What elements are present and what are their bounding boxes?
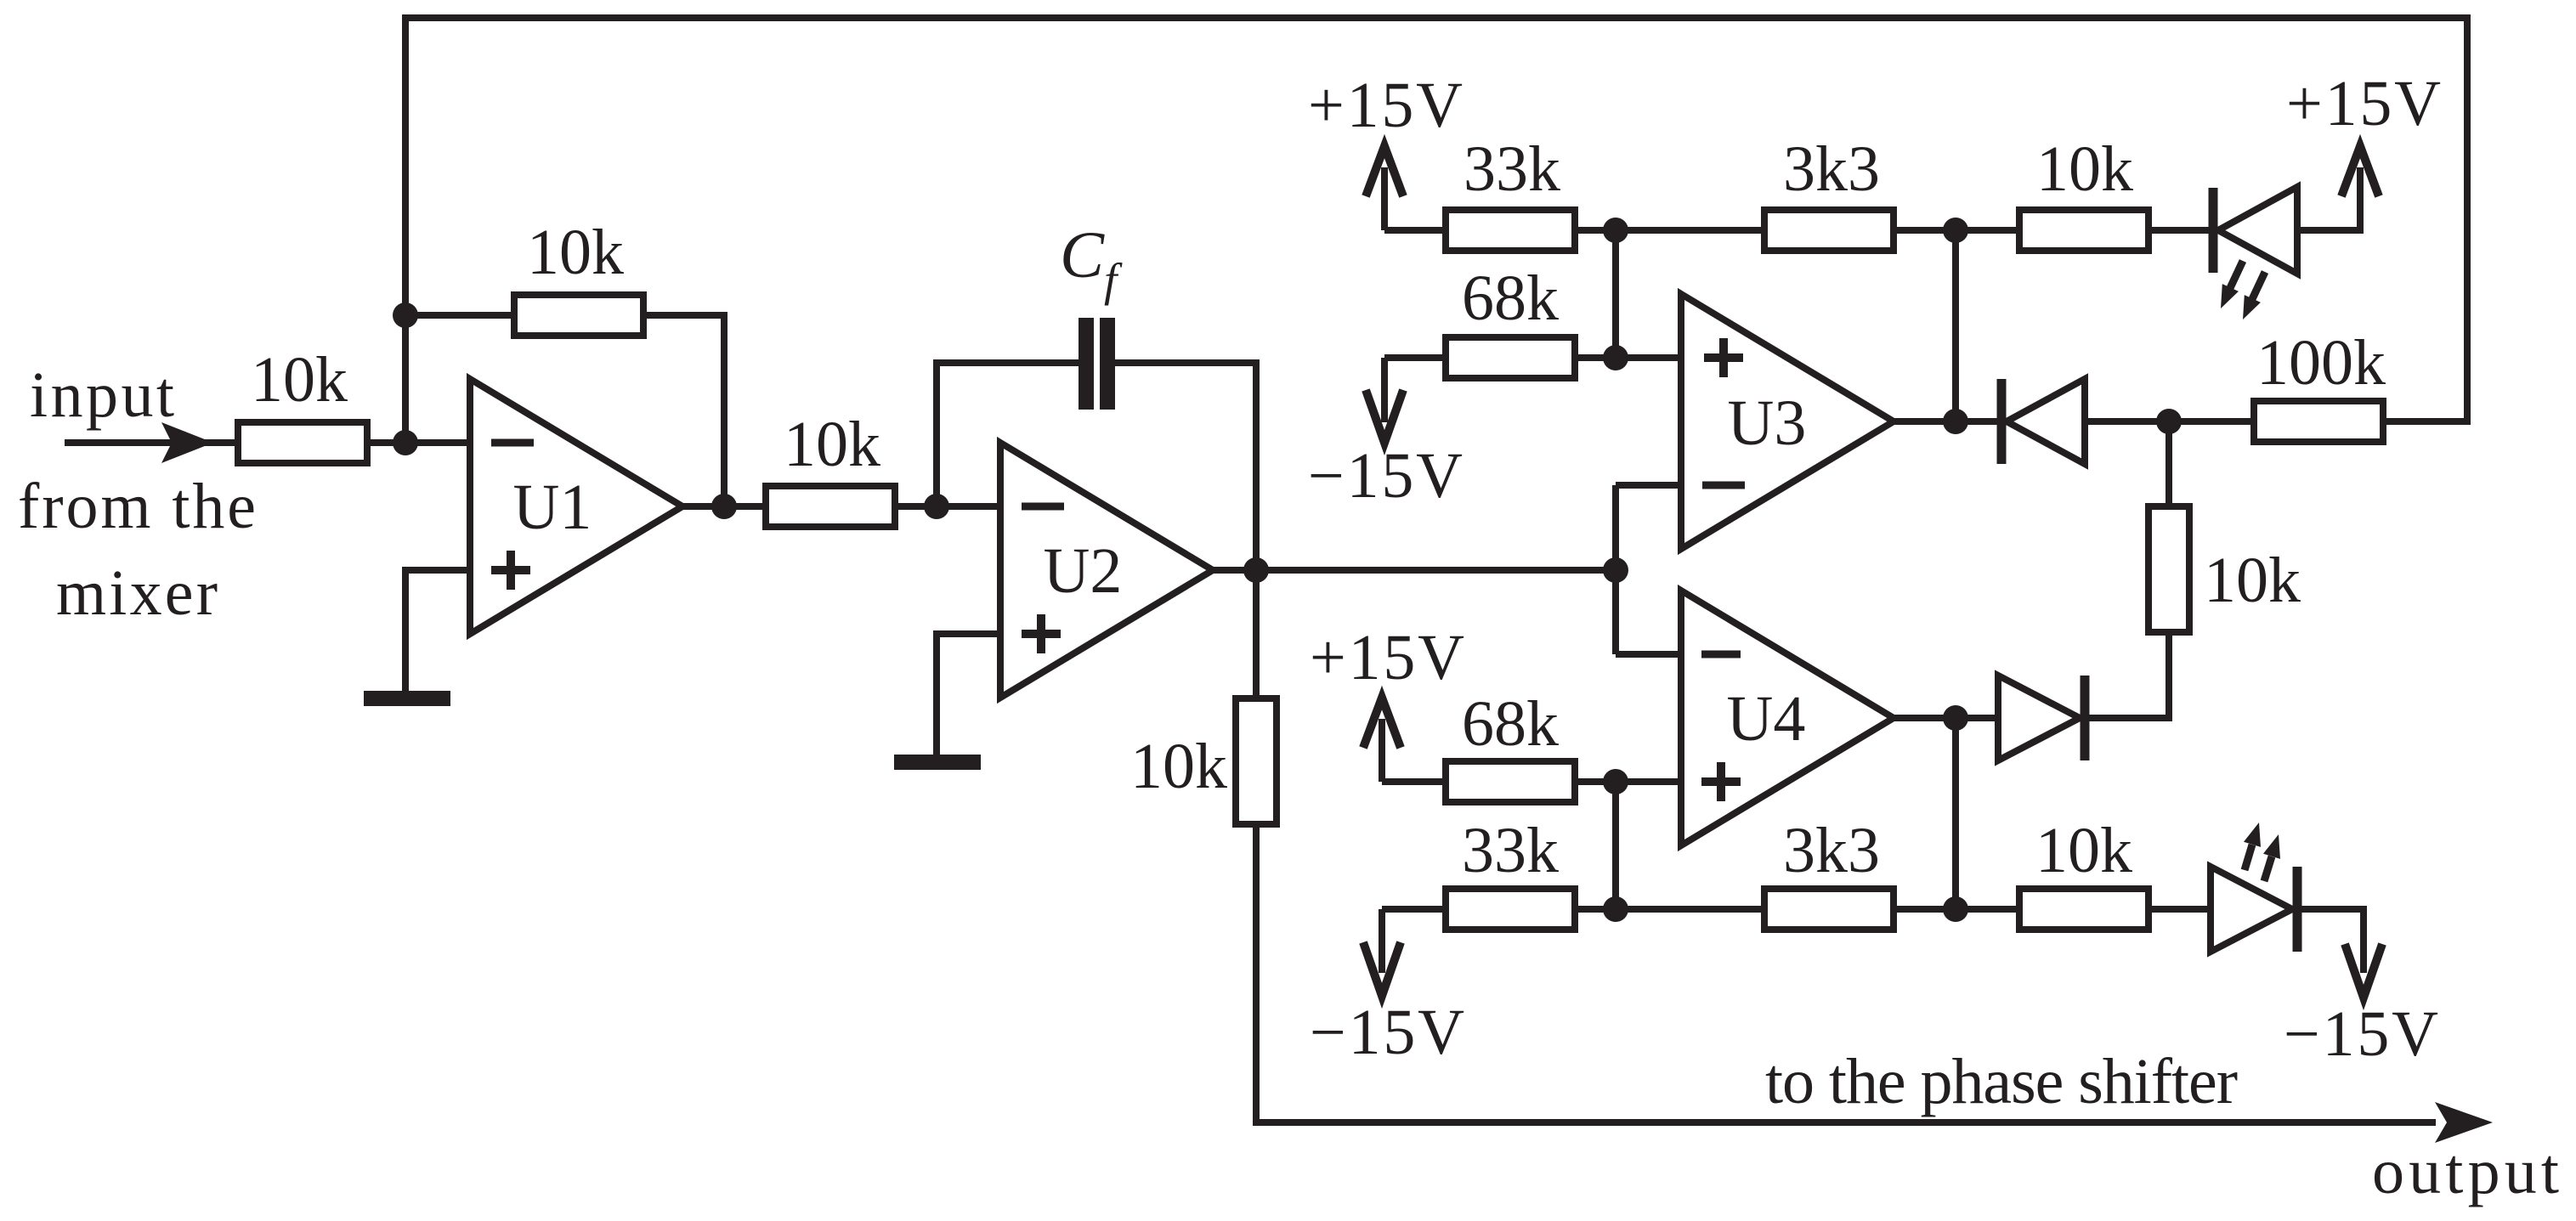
emission arrows LED1 <box>2221 261 2265 319</box>
node diode 100k junction <box>2156 409 2182 434</box>
node U3 output junction <box>1943 409 1968 434</box>
wire 10k to LED2 <box>2149 906 2211 913</box>
emission arrows LED2 <box>2244 822 2280 881</box>
node U3 plus junction <box>1603 345 1628 370</box>
svg-text:−15V: −15V <box>1308 440 1463 512</box>
+15V supply arrow for 68k U4 <box>1363 698 1401 782</box>
svg-text:output: output <box>2372 1136 2559 1207</box>
wire U2 output down to vertical resistor <box>1253 570 1260 698</box>
wire 33k U4 row left <box>1382 906 1442 913</box>
node U4 output junction <box>1943 705 1968 731</box>
wire tee vertical to U3 and U4 inverting inputs <box>1616 485 1681 654</box>
wire top feedback loop <box>405 18 2467 443</box>
svg-text:10k: 10k <box>1130 731 1227 802</box>
svg-text:U3: U3 <box>1728 387 1807 459</box>
svg-text:68k: 68k <box>1462 263 1559 334</box>
resistor 10k vertical mid <box>1236 698 1277 824</box>
node comparator tee junction <box>1603 557 1628 583</box>
wire U2 output row <box>1213 567 1616 574</box>
svg-text:U4: U4 <box>1727 683 1806 755</box>
op-amp U2 <box>1000 443 1213 698</box>
wire U4 output junction down to 3k3 row <box>1952 718 1959 909</box>
wire feedback right segment down to U1 output <box>643 315 724 506</box>
wire U4 plus junction down to 33k row <box>1612 782 1619 909</box>
svg-text:33k: 33k <box>1464 133 1560 205</box>
+15V supply arrow for 33k U3 <box>1366 146 1403 230</box>
svg-text:Cf: Cf <box>1060 218 1123 306</box>
-15V supply arrow for 68k U3 <box>1366 358 1403 443</box>
ground U2 <box>894 755 981 770</box>
wire 33k junction down to U3 plus node <box>1612 230 1619 358</box>
svg-text:U1: U1 <box>513 472 592 543</box>
wire LED2 to -15V <box>2297 909 2364 973</box>
resistor 33k U3 <box>1446 210 1575 251</box>
wire 68k U4 row left <box>1382 778 1442 785</box>
resistor 100k <box>2254 401 2383 442</box>
svg-text:10k: 10k <box>2036 133 2133 205</box>
wire 33k to 3k3 <box>1578 227 1764 234</box>
node 33k U4 junction <box>1603 896 1628 922</box>
wire 68k to U4 plus input <box>1578 778 1681 785</box>
svg-text:to the phase shifter: to the phase shifter <box>1765 1046 2238 1117</box>
svg-text:100k: 100k <box>2256 327 2386 399</box>
svg-text:10k: 10k <box>2035 815 2132 886</box>
wire bottom output run <box>1256 824 2436 1122</box>
resistor 3k3 U4 <box>1764 889 1894 930</box>
svg-text:10k: 10k <box>527 217 624 288</box>
+15V supply arrow top right <box>2341 146 2379 196</box>
svg-text:3k3: 3k3 <box>1783 133 1880 205</box>
wire 3k3 to 10k bottom <box>1894 906 2019 913</box>
resistor 10k vertical right <box>2149 506 2189 632</box>
resistor 3k3 U3 <box>1764 210 1894 251</box>
-15V supply arrow bottom right <box>2345 944 2382 998</box>
wire 10k to LED1 <box>2149 227 2210 234</box>
node 33k junction <box>1603 218 1628 243</box>
ground U1 <box>364 691 450 706</box>
wire resistor to U2 inverting input <box>898 503 1000 510</box>
op-amp U1 <box>470 379 682 634</box>
wire 100k to right edge <box>2383 418 2467 425</box>
resistor 10k feedback U1 <box>514 295 643 336</box>
svg-text:33k: 33k <box>1462 815 1559 886</box>
wire 68k to U3 plus input <box>1578 354 1681 361</box>
node U4 plus junction <box>1603 769 1628 794</box>
wire 3k3 to 10k top <box>1894 227 2019 234</box>
svg-text:−15V: −15V <box>1310 997 1464 1068</box>
resistor 10k between U1 and U2 <box>766 486 895 527</box>
node 3k3 U4 junction <box>1943 896 1968 922</box>
op-amp U3 <box>1681 294 1894 549</box>
wire 68k row left <box>1384 354 1442 361</box>
svg-text:+15V: +15V <box>1310 622 1464 693</box>
wire input line <box>65 439 235 446</box>
wire U2 noninverting input to ground <box>937 634 1000 755</box>
input arrowhead <box>161 422 213 463</box>
wire 10k vertical right top connection <box>2166 421 2172 506</box>
capacitor Cf <box>1079 318 1115 410</box>
svg-text:input: input <box>30 359 174 431</box>
resistor 10k input <box>238 422 367 463</box>
diode D2 feedback bottom <box>1998 676 2085 760</box>
op-amp U4 <box>1681 591 1894 845</box>
node U1 output junction <box>711 494 737 519</box>
svg-text:+15V: +15V <box>2286 68 2441 139</box>
svg-text:−15V: −15V <box>2284 998 2438 1070</box>
diode D1 feedback top <box>2001 379 2085 464</box>
wire Cf loop right down to U2 output <box>1115 363 1256 570</box>
output arrowhead <box>2435 1102 2493 1143</box>
wire diode to 100k node <box>2085 418 2254 425</box>
node U2 inverting junction <box>924 494 949 519</box>
wire Cf loop left <box>937 363 1079 506</box>
svg-text:10k: 10k <box>2204 545 2301 616</box>
node feedback junction <box>393 302 418 328</box>
wire 10k vertical right bottom to diode D2 <box>2085 632 2169 718</box>
wire U1 output row <box>682 503 762 510</box>
wire U1 noninverting input to ground <box>405 570 470 691</box>
svg-text:10k: 10k <box>784 409 880 480</box>
LED D1 top <box>2213 187 2297 274</box>
-15V supply arrow for 33k U4 <box>1363 909 1401 996</box>
wire 33k to 3k3 bottom <box>1578 906 1764 913</box>
resistor 33k U4 <box>1446 889 1575 930</box>
svg-text:68k: 68k <box>1462 688 1559 760</box>
wire U3 output <box>1894 418 1998 425</box>
wire 33k row left <box>1384 227 1442 234</box>
wire input resistor to U1 inverting input <box>371 439 470 446</box>
svg-text:10k: 10k <box>251 344 348 415</box>
node input junction <box>393 430 418 455</box>
wire 3k3 junction down to U3 output <box>1952 230 1959 421</box>
wire LED1 to +15V <box>2297 167 2360 230</box>
LED D2 bottom <box>2211 867 2297 952</box>
svg-text:from the: from the <box>18 471 256 542</box>
svg-text:+15V: +15V <box>1308 70 1463 141</box>
resistor 68k U4 <box>1446 761 1575 802</box>
svg-text:U2: U2 <box>1044 535 1123 607</box>
svg-text:3k3: 3k3 <box>1783 815 1880 886</box>
wire U4 output <box>1894 715 1998 721</box>
resistor 68k U3 <box>1446 337 1575 378</box>
svg-text:mixer: mixer <box>56 557 218 629</box>
wire feedback left segment <box>405 312 511 319</box>
node U2 output junction <box>1243 557 1269 583</box>
resistor 10k LED top <box>2019 210 2149 251</box>
node 3k3 junction <box>1943 218 1968 243</box>
resistor 10k LED bottom <box>2019 889 2149 930</box>
